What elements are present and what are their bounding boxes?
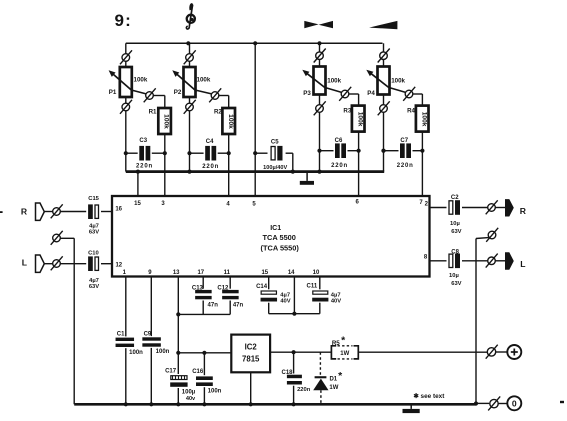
svg-text:63V: 63V (89, 284, 99, 290)
svg-text:(TCA 5550): (TCA 5550) (261, 243, 300, 252)
svg-text:4µ7: 4µ7 (89, 278, 99, 284)
svg-text:✱ see text: ✱ see text (413, 393, 445, 400)
svg-text:100n: 100n (156, 349, 170, 355)
svg-text:C10: C10 (88, 251, 99, 257)
svg-text:4µ7: 4µ7 (331, 292, 341, 298)
svg-text:220n: 220n (136, 163, 153, 169)
svg-text:40V: 40V (331, 299, 341, 305)
svg-text:11: 11 (224, 270, 231, 276)
svg-text:D1: D1 (329, 377, 337, 383)
svg-text:R3: R3 (343, 107, 351, 114)
svg-text:220n: 220n (397, 163, 414, 169)
svg-text:15: 15 (261, 270, 268, 276)
svg-text:C14: C14 (256, 284, 268, 290)
svg-text:10µ: 10µ (449, 273, 459, 279)
svg-text:P3: P3 (303, 90, 311, 97)
svg-text:17: 17 (197, 270, 204, 276)
svg-text:100n: 100n (208, 388, 222, 394)
svg-text:4µ7: 4µ7 (89, 224, 99, 230)
svg-text:0: 0 (512, 398, 517, 408)
svg-text:40v: 40v (186, 396, 196, 402)
svg-text:9:: 9: (115, 11, 133, 30)
svg-text:L: L (520, 259, 525, 269)
svg-text:63V: 63V (451, 229, 461, 235)
svg-text:IC2: IC2 (245, 342, 258, 351)
svg-text:1W: 1W (329, 385, 338, 391)
svg-text:100k: 100k (197, 76, 211, 83)
svg-text:47n: 47n (233, 303, 244, 309)
svg-text:C18: C18 (281, 370, 293, 376)
svg-text:100µ: 100µ (182, 389, 196, 395)
svg-text:C11: C11 (307, 284, 318, 290)
svg-text:C13: C13 (192, 285, 204, 291)
svg-text:R: R (21, 206, 28, 216)
svg-text:100k: 100k (391, 77, 405, 84)
svg-text:47n: 47n (208, 303, 219, 309)
svg-text:7815: 7815 (242, 355, 260, 364)
svg-text:100k: 100k (327, 77, 341, 84)
svg-text:13: 13 (173, 270, 180, 276)
svg-text:P2: P2 (174, 89, 182, 96)
svg-text:220n: 220n (202, 164, 219, 170)
svg-text:100k: 100k (420, 112, 427, 127)
svg-text:C4: C4 (206, 139, 214, 145)
svg-text:R4: R4 (407, 107, 415, 114)
svg-text:IC1: IC1 (270, 225, 281, 232)
svg-text:C6: C6 (335, 138, 343, 144)
svg-text:C12: C12 (217, 285, 229, 291)
svg-text:63V: 63V (451, 281, 461, 287)
svg-text:TCA 5500: TCA 5500 (262, 233, 295, 242)
svg-text:100k: 100k (227, 114, 234, 129)
svg-text:C9: C9 (144, 331, 152, 337)
svg-text:100k: 100k (134, 76, 148, 83)
svg-text:63V: 63V (89, 230, 99, 236)
svg-text:C15: C15 (88, 196, 99, 202)
svg-text:L: L (22, 258, 27, 268)
svg-text:100k: 100k (356, 112, 363, 127)
svg-text:16: 16 (115, 207, 122, 213)
svg-text:1W: 1W (340, 351, 349, 357)
svg-text:12: 12 (115, 263, 122, 269)
svg-text:100n: 100n (129, 350, 143, 356)
svg-text:C2: C2 (451, 195, 459, 201)
svg-text:R1: R1 (149, 109, 157, 116)
svg-text:100k: 100k (163, 114, 170, 129)
svg-text:40V: 40V (280, 298, 290, 304)
svg-text:100µ/40V: 100µ/40V (263, 165, 287, 171)
svg-text:P1: P1 (109, 89, 117, 96)
svg-text:C16: C16 (192, 369, 204, 375)
svg-text:C1: C1 (117, 331, 125, 337)
svg-text:C7: C7 (400, 138, 408, 144)
svg-text:15: 15 (134, 201, 141, 207)
svg-text:R: R (520, 206, 527, 216)
svg-text:C8: C8 (451, 249, 459, 255)
svg-text:14: 14 (288, 270, 295, 276)
svg-text:C3: C3 (139, 138, 147, 144)
svg-text:P4: P4 (367, 90, 375, 97)
svg-text:10: 10 (313, 270, 320, 276)
svg-text:R2: R2 (214, 109, 222, 116)
svg-text:220n: 220n (297, 387, 311, 393)
svg-text:10µ: 10µ (450, 221, 460, 227)
svg-text:220n: 220n (331, 163, 348, 169)
svg-text:C17: C17 (165, 368, 177, 374)
svg-text:C5: C5 (271, 139, 279, 145)
